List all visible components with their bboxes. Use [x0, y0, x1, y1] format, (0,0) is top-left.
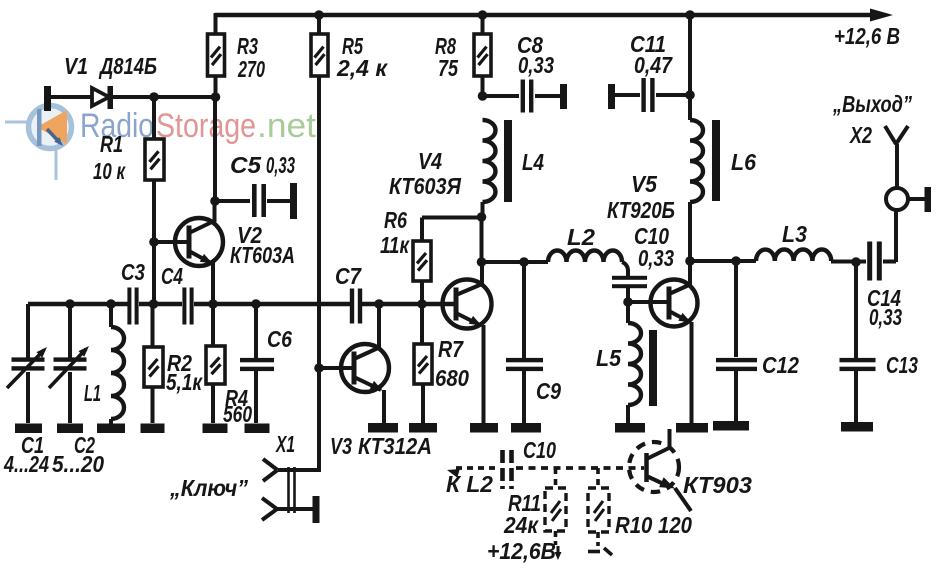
svg-text:„Ключ”: „Ключ”: [169, 475, 248, 501]
ground C9: [511, 423, 541, 433]
svg-text:L6: L6: [731, 149, 756, 175]
wire diode node to R1: [152, 97, 156, 139]
svg-text:V5: V5: [631, 171, 658, 197]
svg-text:С3: С3: [121, 259, 145, 285]
svg-text:560: 560: [223, 401, 252, 427]
wire base node to V2: [154, 240, 188, 244]
capacitor C14 0.33: [867, 242, 902, 331]
ground V3 emitter: [368, 423, 398, 433]
svg-text:L4: L4: [522, 149, 544, 175]
resistor R4 560: [206, 304, 252, 427]
node R3 bottom: [211, 92, 221, 102]
svg-text:5...20: 5...20: [52, 451, 104, 477]
node V2 emitter / R4: [208, 299, 218, 309]
wire terminal to diode: [51, 95, 92, 99]
+12.6V key supply label: [487, 538, 562, 564]
svg-text:R1: R1: [100, 131, 123, 157]
wire KT903 collector to V5 emitter ground: [668, 429, 672, 448]
svg-text:4...24: 4...24: [3, 451, 49, 477]
ground R2: [141, 424, 165, 434]
wire V3 emitter: [382, 390, 386, 423]
ground R7: [409, 423, 437, 433]
svg-text:0,33: 0,33: [638, 245, 674, 271]
dashed capacitor C10 (key): [503, 437, 557, 489]
resistor R5 2.4k: [311, 33, 388, 81]
svg-text:V4: V4: [418, 148, 442, 174]
capacitor C4: [161, 263, 194, 325]
wire V2 emitter: [211, 262, 215, 304]
svg-text:75: 75: [438, 55, 459, 81]
wire V4 collector: [480, 262, 484, 285]
node R1/R2: [149, 299, 159, 309]
wire collector node to R6 node: [480, 217, 484, 262]
svg-text:L1: L1: [84, 380, 101, 406]
wire diode to R3 bottom: [113, 95, 216, 99]
svg-text:КТ920Б: КТ920Б: [607, 197, 675, 223]
node V2 base: [149, 237, 159, 247]
ground C6: [245, 424, 270, 434]
inductor L5: [596, 302, 657, 423]
node C12: [731, 256, 741, 266]
node L1: [106, 299, 116, 309]
svg-text:КТ603Я: КТ603Я: [389, 173, 462, 199]
svg-text:0,33: 0,33: [518, 52, 554, 78]
capacitor C8 0.33: [483, 32, 568, 113]
svg-text:С7: С7: [335, 263, 362, 289]
svg-text:Д814Б: Д814Б: [98, 53, 157, 79]
svg-text:R6: R6: [384, 207, 407, 233]
svg-text:V1: V1: [64, 53, 88, 79]
dashed wire C10 to KT903 base: [516, 466, 644, 470]
node V3 collector: [374, 299, 384, 309]
svg-text:Х1: Х1: [275, 431, 295, 457]
resistor R1 10k: [93, 131, 164, 184]
ground C13: [841, 422, 873, 432]
svg-text:Х2: Х2: [848, 122, 872, 148]
svg-text:С12: С12: [762, 352, 799, 378]
node C9 tap: [519, 257, 529, 267]
svg-text:Storage: Storage: [156, 107, 256, 145]
svg-text:С13: С13: [886, 352, 918, 378]
wire V4 emitter: [482, 325, 486, 423]
svg-text:R10 120: R10 120: [615, 512, 692, 538]
inductor L1: [84, 304, 124, 424]
watermark RadioStorage.net logo: [5, 106, 72, 181]
svg-text:24к: 24к: [503, 512, 539, 538]
wire rail to R3: [214, 13, 218, 34]
svg-text:0,47: 0,47: [634, 52, 673, 78]
svg-text:.net: .net: [257, 107, 317, 145]
ground C12: [713, 421, 749, 431]
capacitor C3: [121, 259, 145, 325]
ground V5 emitter: [676, 423, 708, 433]
resistor R2 5.1k: [144, 304, 203, 423]
svg-text:270: 270: [237, 56, 265, 82]
input terminal: [44, 86, 51, 111]
svg-text:10 к: 10 к: [93, 158, 126, 184]
wire to V3 base: [319, 366, 353, 370]
svg-text:„Выход”: „Выход”: [832, 91, 912, 117]
wire collector node up to diode node: [213, 97, 217, 201]
wire V2 collector: [213, 201, 217, 222]
svg-text:L5: L5: [596, 345, 622, 371]
diode V1 Д814Б: [64, 53, 157, 109]
node L4 top / C8: [478, 91, 488, 101]
svg-text:С9: С9: [536, 378, 561, 404]
wire L3 to C13 node: [831, 260, 866, 264]
svg-text:2,4 к: 2,4 к: [336, 55, 388, 81]
node C2: [65, 299, 75, 309]
node L6-C11: [685, 90, 695, 100]
ground L5: [615, 423, 645, 433]
wire R5 down to key line: [317, 15, 321, 34]
node V3 base: [314, 363, 324, 373]
wire up to X2: [894, 211, 898, 262]
node R6/R7: [417, 299, 427, 309]
ground C2: [57, 424, 83, 434]
dashed arrow to L2: [446, 468, 500, 497]
transistor V5 КТ920Б: [607, 171, 698, 327]
svg-text:R7: R7: [438, 336, 464, 362]
capacitor C9: [506, 262, 561, 423]
svg-text:КТ312А: КТ312А: [358, 433, 432, 459]
wire input bus left segment: [28, 302, 128, 306]
wire V5 collector: [688, 261, 692, 285]
wire bus C3-C4: [139, 302, 182, 306]
wire to V5 base: [628, 300, 668, 304]
inductor L3: [756, 221, 831, 261]
inductor L6: [690, 15, 756, 261]
dashed resistor R11 24k: [503, 468, 566, 545]
resistor R8 75: [435, 33, 491, 81]
svg-text:К L2: К L2: [446, 471, 493, 497]
node collector-L2: [477, 257, 487, 267]
transistor КТ903 (dashed): [629, 442, 752, 511]
node diode-R1: [149, 92, 159, 102]
capacitor C10 0.33: [612, 223, 674, 302]
capacitor C13: [840, 262, 919, 422]
inductor L4: [483, 120, 545, 217]
wire R3 to node: [214, 76, 218, 97]
dashed resistor R10 120: [588, 468, 692, 555]
inductor L2: [548, 224, 628, 277]
svg-text:+12,6 В: +12,6 В: [834, 23, 900, 49]
resistor R3 270: [208, 33, 266, 82]
variable capacitor C1 4..24: [3, 304, 49, 477]
capacitor C12: [716, 261, 799, 421]
transistor V4 КТ603Я: [389, 148, 492, 329]
svg-text:С10: С10: [523, 437, 556, 463]
svg-text:V3: V3: [330, 433, 352, 459]
node C5 tap: [210, 196, 220, 206]
svg-text:L2: L2: [567, 224, 595, 250]
ground L1: [97, 424, 125, 434]
resistor R7 680: [414, 304, 469, 423]
connector X2 output: [832, 91, 931, 212]
svg-text:0,33: 0,33: [869, 304, 902, 330]
wire R8 bottom: [481, 76, 485, 96]
node C6: [251, 299, 261, 309]
svg-text:С5: С5: [230, 152, 262, 178]
capacitor C6: [240, 304, 292, 423]
node rail-L6: [685, 10, 695, 20]
watermark text RadioStorage.net: [80, 107, 317, 145]
wire bus C7 to V4 base: [362, 302, 455, 306]
svg-text:680: 680: [435, 365, 469, 391]
svg-text:+12,6В: +12,6В: [487, 538, 556, 564]
resistor R6 11k: [380, 207, 482, 304]
transistor V2 КТ603А: [175, 218, 295, 268]
ground C1: [15, 424, 42, 434]
wire V5 emitter: [690, 322, 694, 423]
+12.6V supply rail: [215, 9, 900, 50]
node rail-R8: [478, 10, 488, 20]
svg-text:5,1к: 5,1к: [166, 369, 203, 395]
node R6 tap: [477, 212, 487, 222]
node V5 base: [623, 297, 633, 307]
wire key line corner: [278, 468, 319, 470]
variable capacitor C2 5..20: [49, 304, 104, 477]
wire V3 collector: [377, 304, 381, 348]
ground V4 emitter: [470, 423, 498, 433]
node C13: [851, 257, 861, 267]
svg-text:КТ603А: КТ603А: [230, 242, 295, 268]
wire V5 collector to C12 node: [690, 259, 756, 263]
connector X1 key jack: [169, 431, 319, 523]
svg-text:11к: 11к: [380, 232, 410, 258]
svg-text:0,33: 0,33: [266, 152, 295, 178]
capacitor C11 0.47: [608, 31, 690, 112]
capacitor C7: [335, 263, 362, 324]
wire bus C4-C7: [194, 302, 350, 306]
svg-text:С4: С4: [161, 263, 183, 289]
svg-text:С6: С6: [267, 326, 292, 352]
node rail-R5: [314, 10, 324, 20]
transistor V3 КТ312А: [330, 344, 432, 459]
wire R1 to V2 base: [152, 180, 156, 304]
svg-text:КТ903: КТ903: [683, 472, 752, 498]
wire collector node to L2: [482, 260, 549, 264]
svg-text:L3: L3: [782, 221, 807, 247]
node V5 collector: [685, 256, 695, 266]
ground R4: [203, 424, 228, 434]
capacitor C5 0.33: [215, 152, 297, 219]
